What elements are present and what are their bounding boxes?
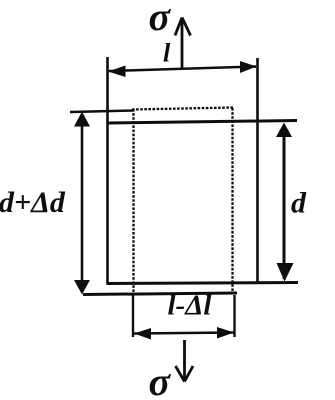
rect left edge (solid, extended up) <box>106 57 109 284</box>
dotted rect right edge <box>231 108 233 292</box>
svg-text:σ: σ <box>149 0 172 39</box>
dimension line l (double arrow) <box>108 61 257 77</box>
rect right edge (solid, extended up) <box>256 58 259 284</box>
dotted rect left edge <box>132 109 134 293</box>
svg-text:l-Δl: l-Δl <box>168 290 213 322</box>
extension line bottom (and dotted rect bottom) <box>83 293 237 295</box>
svg-text:d: d <box>291 187 307 220</box>
extension line bottom-right vertical <box>233 295 235 337</box>
svg-text:d+Δd: d+Δd <box>0 186 66 219</box>
dimension arrow d (right, double arrow) <box>276 123 294 282</box>
dotted rect top edge <box>132 108 233 110</box>
rect top edge (solid, extended right) <box>107 121 298 124</box>
dimension arrow d+delta-d (left, double arrow) <box>74 112 90 295</box>
extension line top-left <box>70 111 133 113</box>
extension line bottom-left vertical <box>132 295 134 337</box>
rect bottom edge (solid, extended right) <box>107 283 299 284</box>
arrow sigma bottom (applied stress, downward) <box>176 340 194 382</box>
svg-text:σ: σ <box>149 359 172 400</box>
arrow sigma top (applied stress, upward) <box>175 18 191 71</box>
dimension line l-delta-l (bottom, double arrow) <box>134 327 234 340</box>
svg-text:l: l <box>163 39 171 68</box>
